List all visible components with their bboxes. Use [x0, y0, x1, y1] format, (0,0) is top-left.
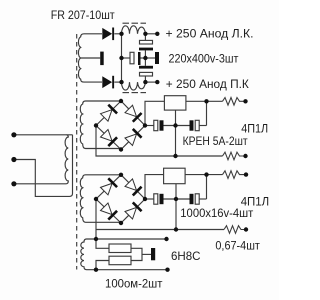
svg-text:0,67-4шт: 0,67-4шт: [215, 239, 260, 253]
svg-text:6Н8С: 6Н8С: [171, 249, 201, 263]
svg-text:+ 250 Анод П.К: + 250 Анод П.К: [166, 77, 249, 91]
svg-text:FR 207-10шт: FR 207-10шт: [51, 8, 115, 22]
svg-text:КРЕН 5А-2шт: КРЕН 5А-2шт: [183, 134, 248, 148]
svg-text:220x400v-3шт: 220x400v-3шт: [169, 51, 239, 65]
svg-text:100ом-2шт: 100ом-2шт: [105, 277, 163, 291]
svg-text:+ 250 Анод Л.К.: + 250 Анод Л.К.: [166, 27, 254, 41]
svg-text:1000x16v-4шт: 1000x16v-4шт: [180, 206, 253, 220]
